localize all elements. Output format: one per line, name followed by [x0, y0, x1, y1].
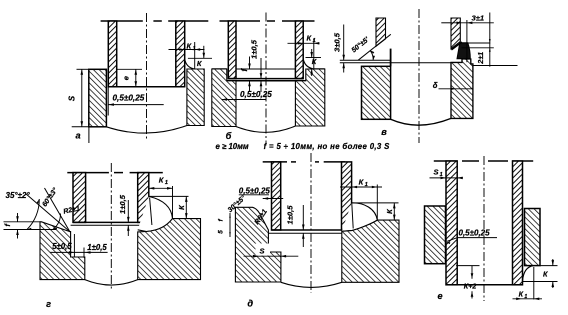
fig v: centerline — [418, 9, 420, 143]
fig e: centerline — [483, 156, 485, 301]
fig a: plate bottom arc — [106, 126, 186, 134]
fig e: pipe end face e — [446, 284, 523, 286]
fig d: S dim — [244, 255, 299, 257]
fig v: H2 ext — [462, 42, 491, 44]
fig g: ext v 74 — [73, 234, 75, 257]
svg-text:0,5±0,25: 0,5±0,25 — [240, 90, 272, 99]
fig g: weld bead outline — [138, 196, 173, 231]
svg-text:S: S — [260, 246, 265, 255]
fig e: S1 dim — [430, 177, 464, 179]
svg-text:1±0,5: 1±0,5 — [118, 194, 127, 214]
fig g: K dim line — [185, 196, 187, 218]
fig d: K1 dim line d — [340, 186, 382, 188]
fig a: centerline — [146, 13, 148, 140]
fig g: K ext h — [149, 195, 189, 197]
fig b: pipe right wall — [295, 21, 303, 79]
fig e: pipe left wall — [446, 161, 457, 285]
fig g: 5±0,5 dim line — [50, 251, 107, 253]
fig e: K+2 dim — [471, 266, 473, 279]
svg-text:δ: δ — [433, 81, 438, 90]
svg-text:3±1: 3±1 — [472, 13, 485, 22]
fig v: delta arrow — [439, 88, 473, 90]
fig g: root gap line — [71, 224, 152, 226]
svg-text:f = 5 ÷ 10мм, но не более 0,3: f = 5 ÷ 10мм, но не более 0,3 S — [264, 142, 391, 151]
fig a: pipe top break line — [101, 20, 143, 22]
fig d: plate left block — [235, 207, 281, 282]
fig d: weld fusion line — [352, 204, 353, 229]
fig v: H3 ext — [462, 47, 494, 49]
fig d: K ext h d — [352, 202, 399, 204]
fig v: chamfer angle line — [358, 34, 391, 60]
fig a: pipe outer line stub below end — [107, 87, 109, 116]
fig b: plate top through bore — [236, 68, 295, 70]
fig b: counterbore step line — [227, 80, 306, 82]
fig a: 0,5 leader arrow — [108, 104, 163, 106]
fig b: plate left block — [212, 69, 236, 127]
svg-text:е ≥ 10мм: е ≥ 10мм — [216, 142, 249, 151]
fig g: plate bottom arc — [85, 280, 138, 285]
fig a: K1 ext line — [194, 42, 196, 69]
svg-text:5±0,5: 5±0,5 — [52, 242, 72, 251]
fig e: K1 dim e — [513, 298, 543, 300]
fig a: S ext bottom — [72, 126, 89, 128]
fig v: plate left block — [362, 66, 391, 119]
svg-text:д: д — [247, 298, 253, 308]
svg-text:3±0,5: 3±0,5 — [333, 32, 342, 52]
fig d: 0,5 leader — [239, 194, 269, 196]
svg-text:2±1: 2±1 — [476, 52, 485, 65]
fig a: pipe left wall — [108, 21, 116, 87]
fig a: stub below block — [88, 127, 90, 143]
fig e: K dim e — [552, 259, 554, 266]
fig d: root gap line — [268, 232, 353, 234]
fig g: groove line 60deg — [45, 188, 70, 232]
fig g: K1 ext — [172, 186, 174, 219]
fig v: weld fusion line — [451, 42, 461, 50]
fig e: pipe top break line — [434, 160, 458, 162]
fig b: K1 ext line — [313, 39, 315, 69]
fig v: weld bead (filled) — [457, 43, 470, 59]
fig d: centerline — [310, 153, 312, 293]
fig e: 0,5 leader e — [458, 237, 498, 239]
fig e: plate left block — [425, 206, 446, 264]
fig e: pipe right wall — [513, 161, 523, 285]
fig v: left hole edge thick line — [390, 49, 392, 67]
svg-text:е: е — [437, 291, 442, 301]
fig a: pipe end face — [108, 86, 184, 88]
fig b: pipe left wall — [228, 21, 236, 79]
fig d: plate right block — [342, 220, 399, 282]
fig a: plate right block — [187, 69, 204, 126]
fig b: K lower arrow — [311, 69, 313, 76]
fig e: K ext h e — [523, 281, 558, 283]
fig v: 3±0,5 dim — [343, 25, 345, 61]
fig g: ext y229 — [4, 229, 57, 231]
fig v: ext V1 — [466, 20, 468, 62]
fig a: S dim line — [81, 69, 83, 127]
svg-text:1: 1 — [440, 172, 443, 178]
fig a: S ext top — [77, 68, 89, 70]
svg-text:0,5±0,25: 0,5±0,25 — [459, 228, 491, 237]
svg-text:1: 1 — [524, 294, 527, 300]
svg-text:е: е — [122, 76, 131, 80]
fig g: groove line 35deg — [26, 194, 70, 232]
fig g: centerline — [110, 163, 112, 291]
svg-text:1: 1 — [365, 182, 368, 188]
fig g: f dim — [17, 213, 19, 222]
fig v: plate top right ext — [473, 65, 518, 67]
fig d: K1 ext d — [376, 185, 378, 221]
fig b: plate top right — [314, 68, 325, 70]
svg-text:1±0,5: 1±0,5 — [87, 243, 107, 252]
fig e: K1 ext v e — [533, 267, 535, 300]
svg-text:0,5±0,25: 0,5±0,25 — [113, 94, 145, 103]
svg-text:5: 5 — [218, 230, 225, 234]
fig a: plate left block — [89, 69, 107, 127]
fig a: K ext line — [188, 57, 212, 59]
svg-text:К: К — [543, 270, 548, 279]
fig g: angle arc 1 — [27, 199, 39, 230]
fig g: angle arc 2 — [53, 214, 61, 230]
fig g: plate left block — [40, 222, 85, 280]
fig g: weld fusion line — [150, 198, 152, 225]
fig v: tube end ext line — [340, 59, 391, 61]
svg-text:г: г — [46, 299, 51, 309]
fig b: pipe end face — [228, 78, 303, 80]
fig b: plate right block — [295, 69, 324, 126]
fig v: top line right — [441, 22, 451, 24]
fig a: K arrow — [203, 46, 205, 59]
svg-text:S: S — [68, 95, 77, 101]
fig b: 1±0,5 dim arrows — [260, 58, 262, 79]
fig d: S label box — [256, 244, 271, 256]
fig d: pipe right wall — [342, 162, 352, 230]
svg-text:К+2: К+2 — [464, 282, 477, 291]
fig g: K1 dim line — [149, 187, 173, 189]
svg-text:в: в — [381, 127, 387, 137]
fig v: step ext line — [340, 62, 451, 64]
svg-text:1: 1 — [313, 38, 316, 44]
fig d: 1±0,5 dim — [302, 205, 304, 230]
svg-text:К: К — [519, 291, 524, 299]
fig g: pipe right wall — [138, 173, 149, 223]
fig v: 3±1 dim line — [451, 22, 494, 24]
fig a: weld fillet arc — [185, 59, 195, 69]
svg-text:S: S — [434, 167, 439, 176]
svg-text:а: а — [75, 131, 80, 141]
svg-text:1: 1 — [165, 180, 168, 186]
fig v: pipe right wall — [451, 18, 460, 49]
fig b: K upper arrow — [311, 49, 313, 58]
svg-text:1±0,5: 1±0,5 — [286, 205, 295, 225]
fig d: K dim line d — [393, 203, 395, 220]
fig e: weld fillet arc e — [523, 266, 534, 282]
fig b: 0,5 leader arrow — [222, 99, 266, 101]
fig g: pipe top break line — [67, 172, 109, 174]
fig d: small dim line — [229, 213, 231, 237]
svg-text:1±0,5: 1±0,5 — [250, 39, 259, 59]
fig v: plate bottom arc — [391, 118, 451, 125]
fig b: plate top left — [212, 68, 227, 70]
fig v: ext V2 — [489, 13, 491, 67]
fig e: plate right block — [525, 209, 541, 266]
fig b: weld fillet arc — [303, 59, 314, 70]
fig d: pipe top break line — [263, 161, 287, 163]
fig b: pipe top break line — [220, 20, 261, 22]
fig g: ext v 84 — [83, 248, 85, 257]
fig a: e ext line — [117, 68, 142, 70]
fig v: pipe left wall — [376, 18, 386, 46]
svg-text:К: К — [312, 57, 317, 66]
fig g: 1±0,5 center dim — [127, 200, 129, 222]
fig g: plate right block — [138, 219, 201, 280]
fig b: centerline — [265, 13, 267, 144]
fig g: ext y222 left — [4, 221, 42, 223]
fig a: pipe right wall — [176, 21, 185, 87]
fig b: K1 dim line — [288, 42, 320, 44]
fig d: weld bead outline — [342, 203, 378, 231]
svg-text:35°±2°: 35°±2° — [6, 191, 31, 200]
fig b: K ext line — [306, 57, 322, 59]
fig a: K1 dim line — [169, 49, 205, 51]
fig b: f dim arrows — [249, 57, 251, 70]
fig g: pipe end face — [73, 221, 149, 223]
fig v: plate right block — [451, 59, 473, 118]
fig e: plate bottom ext e — [540, 265, 558, 267]
fig a: e dim line — [135, 69, 137, 86]
svg-text:1: 1 — [193, 46, 196, 52]
fig g: pipe left wall — [73, 173, 86, 223]
svg-text:б: б — [226, 131, 232, 141]
svg-text:0,5±0,25: 0,5±0,25 — [239, 186, 271, 195]
fig d: pipe end face — [272, 229, 352, 231]
fig v: angle arc — [370, 50, 373, 60]
fig d: plate bottom arc — [281, 282, 342, 287]
fig d: pipe left wall — [272, 162, 281, 230]
fig b: plate bottom arc — [236, 126, 295, 132]
